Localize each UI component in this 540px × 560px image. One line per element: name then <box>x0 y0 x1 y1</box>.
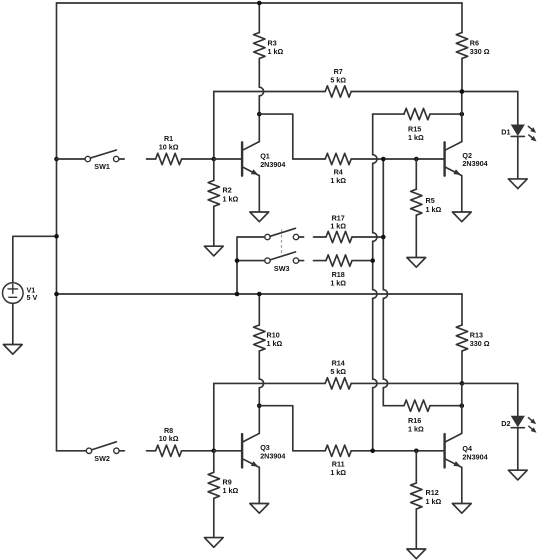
label D2 <box>501 419 510 428</box>
resistor R4 <box>293 153 444 164</box>
svg-text:10 kΩ: 10 kΩ <box>159 434 179 443</box>
svg-text:1 kΩ: 1 kΩ <box>408 425 424 434</box>
wire cross-couple net A vertical <box>373 114 377 451</box>
label R3 <box>268 39 284 57</box>
label R13 <box>470 330 490 348</box>
label R5 <box>426 196 442 214</box>
wire Q2 collector vertical <box>461 92 463 142</box>
wire top supply rail <box>57 2 463 4</box>
ground D2 <box>508 470 527 480</box>
node Q3 base junction <box>212 449 217 454</box>
ground Q2 <box>452 212 471 222</box>
transistor Q2 <box>445 142 462 176</box>
node R3 top junction <box>257 1 262 6</box>
node R18 right junction <box>370 258 375 263</box>
resistor R14 <box>214 378 462 389</box>
svg-text:1 kΩ: 1 kΩ <box>223 486 239 495</box>
svg-text:D1: D1 <box>501 128 510 137</box>
svg-text:1 kΩ: 1 kΩ <box>426 205 442 214</box>
node bottom rail left junction <box>54 292 59 297</box>
label R8 <box>159 426 179 443</box>
svg-text:1 kΩ: 1 kΩ <box>268 47 284 56</box>
wire jog collector to R4 <box>259 114 293 159</box>
label Q4 <box>462 444 487 461</box>
wire to D2 <box>462 383 518 416</box>
wire Q3 base <box>214 450 241 452</box>
transistor Q1 <box>242 142 259 176</box>
wire SW3 pole2 feed <box>237 260 265 262</box>
node Q1 collector junction <box>257 112 262 117</box>
node R6 bottom junction <box>460 89 465 94</box>
ground R12 <box>407 549 426 559</box>
svg-text:R5: R5 <box>426 196 435 205</box>
wire Q1 base <box>214 158 241 160</box>
node R13 bottom junction <box>460 381 465 386</box>
resistor R6 <box>456 3 467 92</box>
wire bottom supply rail <box>57 293 463 295</box>
svg-text:SW2: SW2 <box>94 454 110 463</box>
ground V1 <box>3 345 22 355</box>
node R5 top junction <box>414 157 419 162</box>
label R12 <box>426 488 442 506</box>
resistor R18 <box>314 255 373 266</box>
wire R14 rail corner down to Q3 base <box>213 383 215 450</box>
switch SW2 <box>86 442 124 454</box>
resistor R9 <box>208 451 219 538</box>
wire Q3 emitter <box>258 468 260 504</box>
svg-text:1 kΩ: 1 kΩ <box>223 194 239 203</box>
node R15 right junction <box>460 112 465 117</box>
wire SW2 feed <box>57 450 87 452</box>
label Q1 <box>260 152 285 169</box>
resistor R15 <box>373 108 462 119</box>
label R2 <box>223 186 239 204</box>
svg-text:SW1: SW1 <box>94 162 110 171</box>
svg-text:SW3: SW3 <box>274 264 290 273</box>
label R14 <box>330 359 346 376</box>
resistor R11 <box>293 445 444 456</box>
label R4 <box>330 168 346 186</box>
label R11 <box>330 460 346 478</box>
resistor R1 <box>147 153 214 164</box>
wire Q2 emitter <box>461 176 463 212</box>
label Q2 <box>462 151 487 168</box>
wire Q4 emitter <box>461 468 463 504</box>
switch SW1 <box>85 150 124 162</box>
label R6 <box>470 39 490 57</box>
svg-text:330 Ω: 330 Ω <box>470 339 490 348</box>
label Q3 <box>260 443 285 460</box>
resistor R16 <box>383 400 462 411</box>
svg-text:1 kΩ: 1 kΩ <box>330 176 346 185</box>
ground R2 <box>204 246 223 256</box>
wire D1 cathode <box>517 137 519 179</box>
node SW3 bottom rail junction <box>235 292 240 297</box>
svg-text:2N3904: 2N3904 <box>260 160 285 169</box>
node R16 right junction <box>460 403 465 408</box>
svg-text:1 kΩ: 1 kΩ <box>267 339 283 348</box>
resistor R10 <box>254 294 265 379</box>
source V1 <box>3 283 24 304</box>
resistor R13 <box>456 294 467 383</box>
wire V1 positive <box>13 236 57 282</box>
node SW3 feed junction <box>235 258 240 263</box>
resistor R17 <box>314 231 384 242</box>
label SW2 <box>94 454 110 463</box>
label R9 <box>223 477 239 495</box>
svg-text:5 V: 5 V <box>27 293 38 302</box>
node Q3 collector junction <box>257 403 262 408</box>
svg-text:2N3904: 2N3904 <box>462 452 487 461</box>
wire hop Q3 collector over R14 rail <box>259 379 263 388</box>
LED D1 <box>511 125 536 141</box>
ground R5 <box>407 258 426 268</box>
svg-text:D2: D2 <box>501 419 510 428</box>
label R16 <box>408 416 424 434</box>
node R17 right junction <box>381 235 386 240</box>
label SW1 <box>94 162 110 171</box>
label R1 <box>159 134 179 151</box>
svg-text:R4: R4 <box>334 168 343 177</box>
transistor Q3 <box>242 433 259 467</box>
label SW3 <box>274 264 290 273</box>
label D1 <box>501 128 510 137</box>
svg-text:R11: R11 <box>332 460 345 469</box>
wire D2 cathode <box>517 428 519 470</box>
svg-text:2N3904: 2N3904 <box>462 159 487 168</box>
ground R9 <box>204 538 223 548</box>
svg-text:1 kΩ: 1 kΩ <box>408 133 424 142</box>
wire SW3 pole1 feed <box>237 237 265 294</box>
resistor R2 <box>208 159 219 246</box>
node R12 top junction <box>414 449 419 454</box>
LED D2 <box>511 416 536 432</box>
label R17 <box>330 213 346 230</box>
ground Q1 <box>250 212 269 222</box>
wire hop Q1 collector over R7 rail <box>259 87 263 96</box>
wire Q3 collector vertical <box>258 388 260 433</box>
ground Q3 <box>250 504 269 514</box>
resistor R5 <box>411 159 422 258</box>
node R10 top junction <box>257 292 262 297</box>
ground D1 <box>508 179 527 189</box>
wire to D1 <box>462 92 518 126</box>
ground Q4 <box>452 504 471 514</box>
label R18 <box>330 270 346 287</box>
node V1 rail junction <box>54 234 59 239</box>
svg-text:1 kΩ: 1 kΩ <box>330 222 346 231</box>
node Q2 collector rail junction <box>460 89 465 94</box>
label R10 <box>267 330 283 348</box>
resistor R12 <box>411 451 422 549</box>
svg-text:R15: R15 <box>408 124 421 133</box>
svg-text:1 kΩ: 1 kΩ <box>330 278 346 287</box>
transistor Q4 <box>445 433 462 467</box>
svg-text:10 kΩ: 10 kΩ <box>159 142 179 151</box>
label V1 <box>27 286 38 303</box>
wire jog collector to R11 <box>259 406 293 451</box>
wire V1 negative <box>12 303 14 344</box>
wire SW1 feed <box>57 158 86 160</box>
svg-text:5 kΩ: 5 kΩ <box>330 75 346 84</box>
wire R7 rail corner down to Q1 base <box>213 92 215 160</box>
wire cross-couple net B vertical <box>383 159 387 406</box>
svg-text:1 kΩ: 1 kΩ <box>426 497 442 506</box>
node net A bottom junction <box>370 449 375 454</box>
wire left supply vertical <box>56 3 58 451</box>
svg-text:1 kΩ: 1 kΩ <box>330 468 346 477</box>
resistor R8 <box>147 445 214 456</box>
resistor R7 <box>214 86 462 97</box>
svg-text:330 Ω: 330 Ω <box>470 47 490 56</box>
wire Q4 collector vertical <box>461 383 463 433</box>
svg-text:5 kΩ: 5 kΩ <box>330 367 346 376</box>
wire Q1 emitter <box>258 176 260 212</box>
resistor R3 <box>254 3 265 87</box>
node Q1 base junction <box>212 157 217 162</box>
node SW1 rail junction <box>54 157 59 162</box>
label R7 <box>330 67 346 84</box>
node net B top junction <box>381 157 386 162</box>
svg-text:R12: R12 <box>426 488 439 497</box>
svg-text:2N3904: 2N3904 <box>260 452 285 461</box>
switch SW3 <box>265 228 304 263</box>
wire Q1 collector vertical <box>258 96 260 142</box>
label R15 <box>408 124 424 142</box>
